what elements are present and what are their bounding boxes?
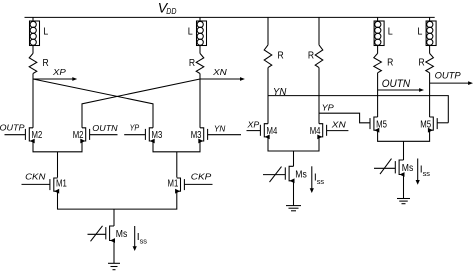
svg-text:DD: DD: [166, 6, 176, 16]
transistor M3 (left): [145, 128, 162, 144]
wire L to R (stage3 right): [429, 46, 431, 54]
svg-text:YP: YP: [322, 102, 335, 112]
wire OUTN to M2 gate: [90, 134, 118, 136]
wire M4 pair sources: [268, 137, 319, 151]
svg-text:M5: M5: [420, 119, 431, 130]
svg-text:L: L: [417, 26, 422, 37]
svg-text:XP: XP: [52, 68, 67, 77]
wire node OUTP output with arrow: [430, 81, 473, 85]
svg-text:R: R: [43, 58, 49, 69]
wire M5 pair sources: [378, 130, 430, 141]
wire Ms source to ground (stage3): [403, 175, 405, 199]
wire VDD to R (stage2 right): [318, 17, 320, 45]
wire R to node XP / M2 drain: [32, 74, 34, 128]
wire to tail transistor drain (stage3): [403, 141, 405, 160]
svg-text:OUTP: OUTP: [435, 70, 462, 81]
svg-text:L: L: [388, 26, 393, 37]
transistor M4 (left): [260, 124, 277, 140]
inductor L (stage3 right): [417, 21, 436, 46]
wire R to M4 left drain / node YN: [267, 68, 269, 124]
wire L to R (stage3 left): [377, 46, 379, 54]
wire node YN to M5 gate: [268, 96, 448, 123]
svg-text:CKN: CKN: [25, 172, 45, 182]
svg-text:CKP: CKP: [191, 172, 212, 182]
svg-text:R: R: [308, 51, 314, 62]
svg-text:M3: M3: [152, 130, 163, 141]
net label VDD: [158, 0, 177, 16]
transistor M1 (left): [50, 178, 67, 194]
svg-text:ss: ss: [317, 177, 325, 186]
ground (stage2): [286, 206, 301, 211]
wire M5 gate to YN: [437, 122, 448, 124]
svg-text:Ms: Ms: [295, 170, 307, 181]
resistor R (stage3 left): [374, 53, 394, 72]
transistor Ms tail (stage3): [395, 160, 413, 177]
transistor M5 (left): [370, 117, 387, 133]
svg-text:M2: M2: [32, 130, 43, 141]
svg-text:XN: XN: [331, 120, 347, 130]
resistor R (stage2 left): [264, 45, 284, 68]
transistor M5 (right): [420, 117, 437, 133]
svg-text:M1: M1: [168, 178, 179, 189]
current arrow Iss (stage1): [133, 226, 148, 251]
gate slash (stage3): [380, 159, 392, 175]
svg-text:XN: XN: [212, 68, 227, 77]
inductor L (tank A): [30, 21, 49, 46]
transistor M3 (right): [191, 128, 208, 144]
svg-text:M3: M3: [191, 130, 202, 141]
wire VDD to inductor (stage3 right): [429, 17, 431, 21]
wire VDD to inductor (tank B): [199, 17, 201, 21]
svg-text:ss: ss: [140, 237, 148, 246]
svg-text:L: L: [43, 26, 48, 37]
wire M3 pair sources: [153, 141, 200, 152]
resistor R (stage3 right): [419, 53, 434, 72]
svg-text:M4: M4: [267, 126, 278, 137]
wire VDD to inductor (stage3 left): [377, 17, 379, 21]
svg-text:R: R: [189, 58, 195, 69]
svg-text:R: R: [419, 58, 425, 69]
wire to tail transistor drain (stage2): [293, 151, 295, 166]
svg-text:OUTN: OUTN: [382, 78, 410, 90]
wire M2 pair sources: [33, 141, 82, 152]
wire CKN to M1 gate: [22, 183, 50, 185]
inductor L (stage3 left): [374, 21, 393, 46]
wire XN to M4 gate: [327, 130, 349, 132]
svg-text:R: R: [387, 58, 393, 69]
transistor M1 (right): [168, 178, 185, 194]
wire node YP to M5 gate: [319, 113, 370, 123]
svg-text:OUTP: OUTP: [0, 123, 25, 132]
transistor Ms tail (stage1): [106, 226, 128, 243]
wire Ms gate bias (stage3): [374, 167, 395, 169]
wire YN to M3 gate: [208, 134, 241, 136]
wire cross-couple XP to M3 drain: [33, 79, 153, 128]
wire OUTP to M2 gate: [5, 134, 26, 136]
wire to M1 right drain: [176, 152, 178, 178]
svg-text:M5: M5: [376, 119, 387, 130]
transistor Ms tail (stage2): [285, 166, 307, 183]
wire L to R (tank A): [32, 46, 34, 54]
svg-text:XP: XP: [246, 120, 259, 130]
wire XP to M4 gate: [247, 130, 261, 132]
gate slash (stage1): [91, 226, 103, 242]
gate slash (stage2): [270, 167, 282, 183]
svg-text:R: R: [278, 51, 284, 62]
svg-text:YN: YN: [214, 123, 226, 133]
current arrow Iss (stage3): [416, 159, 431, 185]
ground (stage1): [108, 263, 120, 269]
wire R to M4 right drain / node YP: [318, 68, 320, 124]
wire node XP output with arrow: [33, 77, 77, 81]
wire VDD rail: [25, 16, 435, 18]
wire to M1 left drain: [57, 152, 59, 178]
wire YP to M3 gate: [124, 134, 145, 136]
wire Ms gate bias (stage2): [263, 174, 285, 176]
wire L to R (tank B): [199, 46, 201, 54]
resistor R (stage2 right): [308, 45, 323, 68]
current arrow Iss (stage2): [310, 166, 325, 193]
resistor R (tank A): [29, 53, 49, 73]
wire CKP to M1 gate: [184, 183, 212, 185]
svg-text:M4: M4: [310, 126, 321, 137]
wire to tail transistor drain (stage1): [113, 209, 115, 226]
svg-text:M1: M1: [56, 178, 67, 189]
wire Ms source to ground (stage1): [113, 241, 115, 264]
wire cross-couple XN to M2 drain: [82, 79, 200, 128]
wire R to node XN: [199, 74, 201, 80]
svg-text:YN: YN: [273, 86, 287, 98]
wire node XN output with arrow: [200, 77, 245, 81]
svg-text:YP: YP: [130, 123, 140, 133]
transistor M2 (right): [73, 128, 90, 144]
svg-text:M2: M2: [73, 130, 84, 141]
wire VDD to inductor (tank A): [32, 17, 34, 21]
ground (stage3): [397, 199, 410, 204]
resistor R (tank B): [189, 53, 204, 73]
wire Ms source to ground (stage2): [293, 181, 295, 206]
svg-text:ss: ss: [423, 169, 431, 178]
wire R to node OUTN / M5 drain: [377, 73, 379, 117]
svg-text:L: L: [188, 26, 193, 37]
inductor L (tank B): [188, 21, 207, 46]
wire VDD to R (stage2 left): [267, 17, 269, 45]
wire M1 pair sources: [58, 191, 177, 209]
svg-text:Ms: Ms: [116, 229, 128, 240]
wire R to node OUTP / M5 drain: [429, 73, 431, 117]
transistor M4 (right): [310, 124, 327, 140]
wire XN to M3 drain: [199, 79, 201, 128]
wire Ms gate bias (stage1): [88, 233, 106, 235]
svg-text:OUTN: OUTN: [92, 124, 118, 133]
svg-text:Ms: Ms: [402, 163, 414, 174]
wire node OUTN output with arrow: [378, 88, 424, 92]
transistor M2 (left): [25, 128, 42, 144]
